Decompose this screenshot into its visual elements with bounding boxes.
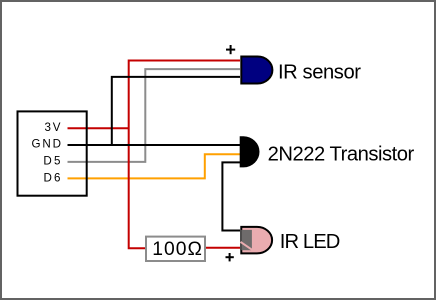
- svg-text:2N222 Transistor: 2N222 Transistor: [268, 143, 415, 165]
- svg-text:3V: 3V: [45, 121, 61, 134]
- svg-text:IR sensor: IR sensor: [278, 61, 361, 83]
- svg-text:100Ω: 100Ω: [152, 239, 202, 260]
- svg-text:IR LED: IR LED: [280, 231, 341, 253]
- svg-text:GND: GND: [32, 137, 62, 150]
